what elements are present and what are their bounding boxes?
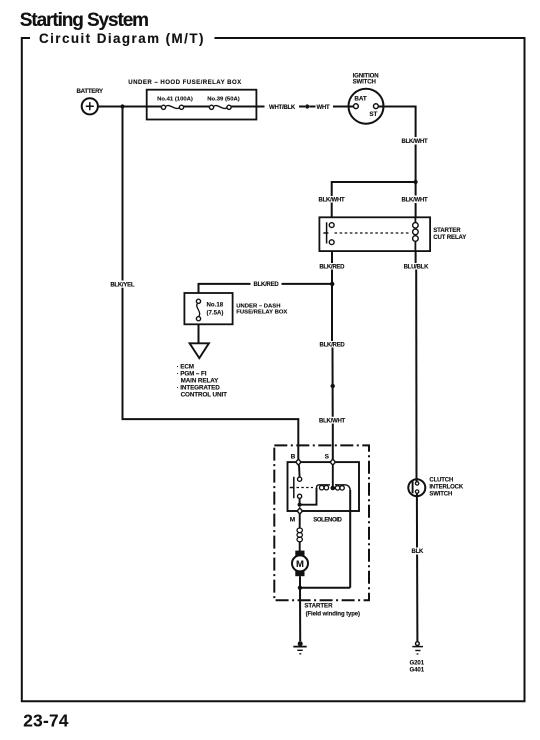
solenoid box bbox=[288, 462, 360, 511]
svg-text:BLK/WHT: BLK/WHT bbox=[319, 197, 345, 203]
wire down to junction bbox=[331, 270, 333, 342]
fuse No.39 (50A) bbox=[207, 97, 239, 110]
svg-text:M: M bbox=[296, 559, 304, 570]
svg-text:BAT: BAT bbox=[354, 95, 366, 102]
svg-text:No.41 (100A): No.41 (100A) bbox=[157, 97, 193, 103]
wire fuse box down bbox=[198, 324, 200, 343]
wire battery to fuse box bbox=[98, 106, 147, 108]
svg-text:BLK: BLK bbox=[412, 549, 424, 555]
node coil junction bbox=[331, 486, 336, 491]
solenoid plunger bbox=[290, 477, 294, 499]
svg-text:BLU/BLK: BLU/BLK bbox=[404, 264, 429, 270]
svg-text:No.39 (50A): No.39 (50A) bbox=[207, 97, 239, 103]
wire to S terminal bbox=[332, 424, 334, 460]
svg-text:ST: ST bbox=[369, 111, 377, 118]
wire branch to under-dash box bbox=[199, 284, 333, 293]
wire between fuses bbox=[184, 106, 209, 108]
ignition switch bbox=[349, 72, 384, 123]
starter cut relay bbox=[319, 217, 466, 251]
wire M down bbox=[299, 514, 301, 528]
wire ignition switch to right column bbox=[378, 107, 415, 138]
svg-text:FUSE/RELAY BOX: FUSE/RELAY BOX bbox=[236, 309, 287, 315]
node junction BLK/RED branch bbox=[330, 282, 334, 286]
svg-text:BLK/RED: BLK/RED bbox=[320, 342, 346, 348]
svg-text:B: B bbox=[291, 454, 296, 461]
wire to relay left bbox=[331, 203, 333, 218]
svg-text:WHT/BLK: WHT/BLK bbox=[269, 105, 296, 111]
solenoid switch contacts bbox=[298, 477, 302, 481]
wire relay left down bbox=[331, 251, 333, 263]
wire dash bbox=[299, 106, 305, 108]
wire contact to junction bbox=[299, 498, 301, 504]
svg-text:23-74: 23-74 bbox=[23, 711, 69, 731]
connector arrow to ECM bbox=[190, 343, 209, 358]
svg-text:BLK/RED: BLK/RED bbox=[254, 282, 280, 288]
svg-text:CLUTCH: CLUTCH bbox=[429, 477, 453, 483]
wire to ignition switch bbox=[333, 106, 354, 108]
svg-text:BLK/WHT: BLK/WHT bbox=[319, 418, 345, 424]
node connector dot bbox=[331, 384, 335, 388]
node junction bbox=[414, 180, 418, 184]
wire fuse box to label bbox=[231, 106, 264, 108]
svg-text:(7.5A): (7.5A) bbox=[207, 309, 224, 316]
node motor junction bbox=[298, 586, 302, 590]
battery bbox=[77, 88, 104, 114]
wire junction to pull-in coil bbox=[300, 488, 317, 505]
wire down to clutch switch bbox=[415, 270, 417, 482]
svg-text:S: S bbox=[325, 454, 330, 461]
field winding bbox=[297, 528, 302, 542]
wire motor down bbox=[299, 576, 301, 588]
fuse No.18 (7.5A) bbox=[196, 299, 200, 321]
svg-text:CUT RELAY: CUT RELAY bbox=[433, 234, 466, 241]
clutch interlock switch bbox=[408, 477, 464, 497]
wire down to junction bbox=[415, 145, 417, 196]
svg-text:M: M bbox=[290, 517, 295, 524]
svg-text:BLK/RED: BLK/RED bbox=[319, 264, 345, 270]
ECM list bbox=[177, 364, 228, 399]
svg-text:CONTROL UNIT: CONTROL UNIT bbox=[181, 391, 228, 398]
node battery junction bbox=[120, 104, 124, 108]
ground G201 G401 bbox=[410, 642, 425, 674]
svg-text:UNDER – HOOD FUSE/RELAY BOX: UNDER – HOOD FUSE/RELAY BOX bbox=[128, 79, 242, 86]
wire down to ground bbox=[416, 555, 418, 642]
wire branch left bbox=[332, 182, 416, 196]
svg-text:BLK/WHT: BLK/WHT bbox=[402, 197, 428, 203]
svg-text:BATTERY: BATTERY bbox=[77, 88, 104, 95]
svg-text:BLK/WHT: BLK/WHT bbox=[402, 139, 428, 145]
node solenoid junction bbox=[298, 503, 302, 507]
wire S to coil junction bbox=[332, 465, 334, 487]
wire bbox=[415, 203, 417, 217]
fuse No.41 (100A) bbox=[147, 97, 193, 110]
hold-in coil bbox=[335, 485, 350, 490]
pull-in coil bbox=[317, 485, 331, 490]
wire clutch switch down bbox=[416, 493, 418, 547]
svg-text:SWITCH: SWITCH bbox=[429, 492, 452, 498]
svg-text:No.18: No.18 bbox=[207, 302, 224, 309]
svg-text:INTERLOCK: INTERLOCK bbox=[429, 484, 463, 490]
svg-text:WHT: WHT bbox=[317, 105, 330, 111]
wire down and across to B terminal bbox=[123, 288, 299, 459]
under-dash fuse/relay box bbox=[184, 293, 287, 324]
wire BLK/YEL left column bbox=[122, 107, 124, 281]
wire mid down bbox=[332, 348, 334, 417]
wire B to contact bbox=[298, 465, 301, 477]
svg-text:Starting System: Starting System bbox=[20, 10, 148, 31]
wire bottom horizontal bbox=[300, 587, 350, 589]
starter assembly dash-dot box bbox=[274, 445, 369, 600]
wire dash bbox=[309, 106, 315, 108]
svg-text:SWITCH: SWITCH bbox=[353, 79, 376, 86]
motor M bbox=[292, 551, 308, 577]
wire relay right down bbox=[415, 251, 417, 263]
svg-text:STARTER: STARTER bbox=[304, 603, 333, 610]
svg-text:BLK/YEL: BLK/YEL bbox=[110, 283, 135, 289]
mechanical link dashed bbox=[297, 487, 314, 489]
svg-text:(Field winding type): (Field winding type) bbox=[306, 611, 360, 617]
wire coil down right side bbox=[349, 490, 351, 588]
svg-text:G401: G401 bbox=[410, 666, 425, 673]
svg-text:MAIN RELAY: MAIN RELAY bbox=[181, 377, 220, 384]
under-hood fuse/relay box bbox=[128, 79, 256, 120]
wire field winding to motor bbox=[299, 542, 301, 551]
ground starter bbox=[293, 641, 306, 654]
wire to ground bbox=[299, 588, 301, 642]
svg-text:SOLENOID: SOLENOID bbox=[313, 518, 342, 524]
svg-text:Circuit Diagram (M/T): Circuit Diagram (M/T) bbox=[39, 31, 205, 46]
node connector dot bbox=[305, 104, 309, 108]
